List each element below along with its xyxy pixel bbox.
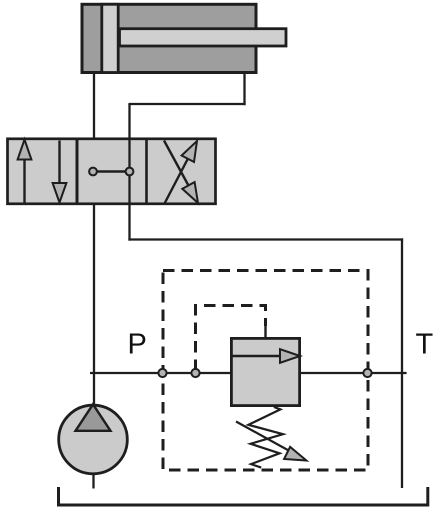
tank reservoir line: [59, 487, 428, 505]
svg-text:P: P: [128, 329, 147, 361]
inner dashed pilot line: [196, 306, 266, 372]
wire valve port B vertical passing through valve: [128, 104, 130, 241]
wire cylinder rod-end port down: [243, 73, 245, 105]
cylinder body: [82, 4, 256, 72]
junction dot at dashed box right: [363, 369, 371, 377]
junction dot at dashed box left: [158, 369, 166, 377]
valve center position port circle right: [126, 168, 134, 176]
relief valve spring: [248, 407, 283, 468]
relief valve adjustment arrow shaft: [236, 422, 295, 455]
relief valve pilot stub: [264, 325, 266, 338]
valve right position crossed arrow up shaft: [165, 158, 189, 204]
valve right position crossed arrow down head: [182, 182, 198, 203]
wire to tank horizontal: [128, 238, 403, 240]
pump flow triangle: [76, 404, 111, 431]
valve right position crossed arrow down shaft: [164, 141, 189, 187]
main pressure line P to T: [90, 372, 407, 374]
wire rod-end horizontal segment: [128, 103, 245, 105]
valve left position up arrowhead: [18, 140, 32, 160]
svg-text:T: T: [416, 329, 434, 361]
wire tank return T vertical: [401, 238, 403, 488]
valve right position crossed arrow up head: [182, 141, 197, 162]
relief valve flow arrow shaft: [231, 355, 284, 357]
valve position divider right: [145, 138, 148, 205]
wire cylinder cap-end port to valve: [93, 73, 95, 138]
relief valve body: [231, 338, 299, 405]
wire valve P port to pump: [93, 204, 95, 405]
valve left position down arrow shaft: [58, 141, 60, 187]
cylinder piston: [102, 4, 118, 72]
directional valve body: [8, 139, 216, 204]
valve center position connecting line: [93, 170, 130, 173]
valve center position port circle left: [89, 168, 97, 176]
pump drain line: [92, 474, 94, 489]
relief valve flow arrowhead: [280, 349, 300, 363]
valve position divider left: [76, 138, 79, 205]
cylinder piston rod: [120, 29, 287, 46]
junction dot at pilot branch: [191, 369, 199, 377]
valve left position up arrow shaft: [23, 156, 25, 204]
valve left position down arrowhead: [53, 183, 67, 203]
pump: [59, 405, 128, 474]
relief valve adjustment arrowhead: [284, 447, 306, 461]
outer dashed enclosure box: [163, 271, 368, 471]
